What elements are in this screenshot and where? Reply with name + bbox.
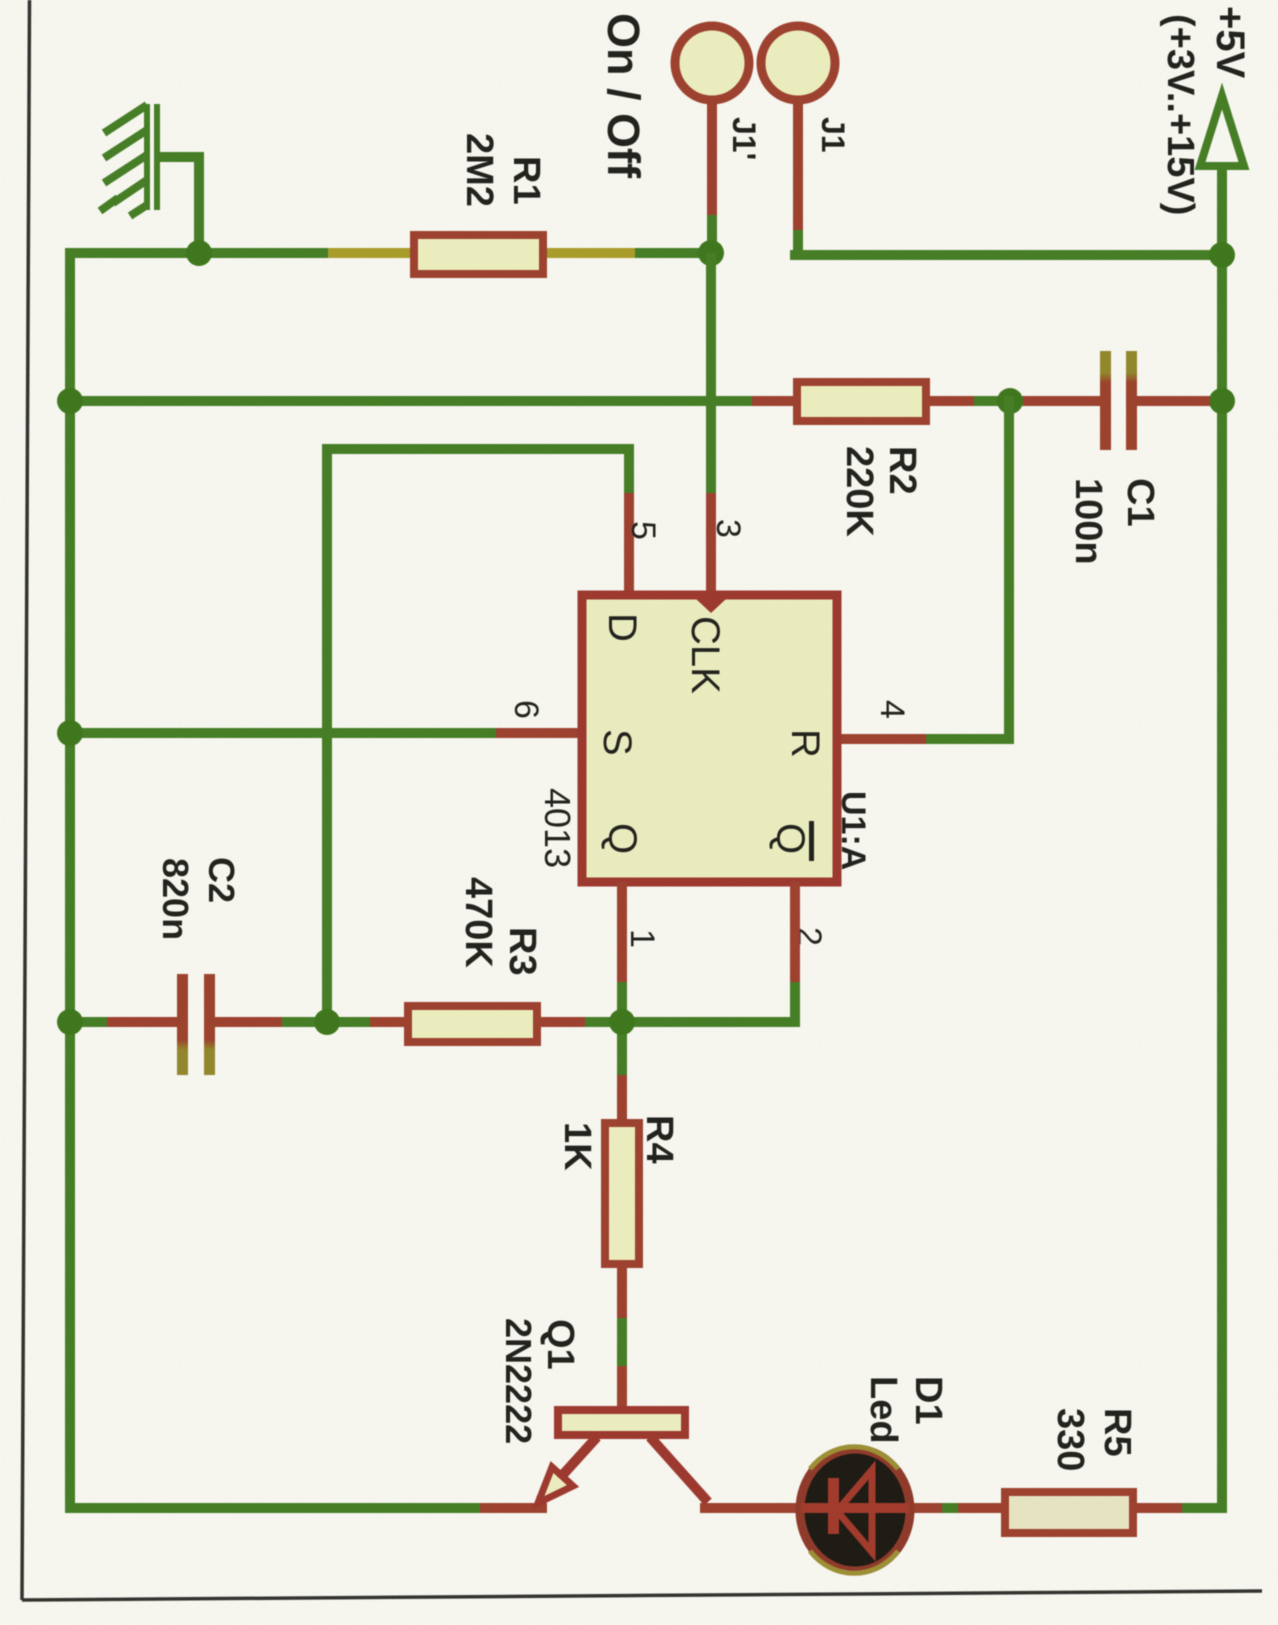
wire CLK vertical (pin 3) — [706, 253, 716, 597]
label Qbar — [768, 821, 814, 861]
transistor Q1 — [538, 1410, 708, 1503]
wire D loop (pin 5) — [322, 444, 634, 1027]
junction D loop / row4 — [314, 1009, 340, 1035]
wire Q pin (pin 1) — [617, 882, 627, 1119]
wire bottom (collector / LED / R5 run) — [700, 1503, 1227, 1513]
wire R4 to Q1 base — [617, 1268, 627, 1410]
resistor R4 — [605, 1123, 639, 1264]
wire row 4 (C2 / R3 / Q line) — [65, 1017, 800, 1027]
power +5V arrow — [1200, 96, 1244, 166]
resistor R3 — [370, 1006, 585, 1042]
junction VDD row1 — [1209, 242, 1235, 268]
wire ground stub — [157, 152, 204, 258]
junction R2 / R pin — [997, 388, 1023, 414]
wire R pin (pin 4) — [841, 396, 1014, 744]
wire VDD right rail — [1217, 165, 1227, 1513]
junction GND rail row4 — [57, 1009, 83, 1035]
wire bottom GND (emitter side) — [65, 1503, 547, 1513]
wire row 3 (S pin line) — [65, 728, 578, 738]
wire GND top (row 1 left) — [65, 248, 716, 258]
resistor R2 — [752, 382, 974, 421]
wire VDD top (row 1 right) — [790, 250, 1227, 260]
junction CLK row1 — [698, 240, 724, 266]
wire row 2 (R2 / C1 line) — [65, 396, 1227, 406]
junction GND rail row3 — [57, 720, 83, 746]
junction GND rail row2 — [57, 388, 83, 414]
touch pad J1 — [761, 26, 835, 260]
wire GND left rail — [65, 248, 75, 1513]
touch pad J1' — [675, 26, 749, 255]
junction VDD row2 — [1209, 388, 1235, 414]
capacitor C2 — [107, 974, 282, 1075]
ground — [100, 104, 160, 216]
junction ground stub / row1 — [186, 240, 212, 266]
IC U1:A 4013 — [582, 595, 837, 882]
resistor R5 — [1005, 1492, 1133, 1533]
wire Qbar pin (pin 2) — [790, 882, 800, 1027]
capacitor C1 — [1023, 351, 1210, 450]
resistor R1 — [328, 235, 635, 274]
LED D1 — [800, 1447, 910, 1574]
junction Q / R3 / R4 — [609, 1009, 635, 1035]
